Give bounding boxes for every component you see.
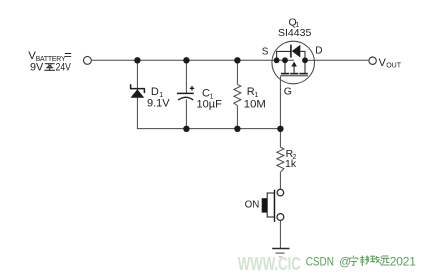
svg-text:G: G — [284, 86, 292, 98]
svg-text:S: S — [262, 47, 269, 58]
svg-text:@: @ — [339, 254, 351, 268]
svg-text:1k: 1k — [285, 158, 297, 170]
svg-text:D: D — [315, 46, 322, 57]
svg-text:D: D — [151, 86, 159, 98]
svg-text:24V: 24V — [56, 62, 72, 74]
svg-text:OUT: OUT — [386, 63, 402, 70]
svg-text:=: = — [64, 47, 72, 62]
svg-text:10M: 10M — [244, 99, 266, 111]
svg-text:WWW.CIC: WWW.CIC — [238, 253, 301, 274]
svg-text:CSDN: CSDN — [306, 254, 334, 268]
svg-text:SI4435: SI4435 — [278, 27, 311, 39]
svg-text:10µF: 10µF — [197, 99, 223, 111]
svg-text:9.1V: 9.1V — [147, 98, 170, 110]
svg-text:2021: 2021 — [390, 254, 416, 268]
svg-text:9V: 9V — [30, 62, 44, 74]
svg-text:ON: ON — [245, 199, 260, 210]
